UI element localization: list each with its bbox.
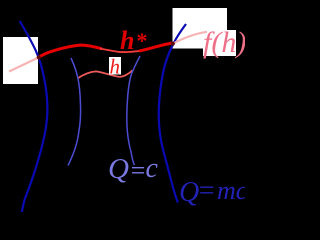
node TL white box — [3, 37, 38, 84]
wire red thick curve left part — [39, 45, 103, 57]
wire outer-right blue curve — [159, 24, 186, 203]
node junction A dot — [37, 55, 41, 59]
wire inner-right blue curve — [127, 56, 140, 165]
wire leader curve from inner-left to inner-right (h pointer) — [78, 70, 133, 78]
wire outer-left blue curve — [20, 21, 48, 212]
node h label box — [109, 57, 121, 75]
svg-text:c: c — [146, 153, 159, 184]
wire inner-left blue curve — [68, 58, 81, 166]
wire pink f(h) tangent line from junction B — [173, 32, 208, 44]
node TR white box — [173, 8, 228, 49]
svg-text:*: * — [137, 28, 148, 53]
svg-text:mc: mc — [217, 176, 245, 205]
svg-text:h: h — [110, 55, 121, 79]
svg-text:h: h — [120, 26, 134, 55]
node f(h) white label patch — [203, 30, 236, 56]
svg-text:=: = — [129, 156, 147, 185]
wire red thin middle segment — [100, 49, 141, 53]
svg-text:=: = — [197, 176, 216, 207]
node junction B dot — [171, 42, 175, 46]
svg-text:Q: Q — [108, 153, 129, 185]
svg-text:f(h): f(h) — [203, 26, 245, 59]
wire pink segment lower-left from junction A — [9, 58, 39, 72]
wire red thick curve right part — [139, 43, 173, 51]
